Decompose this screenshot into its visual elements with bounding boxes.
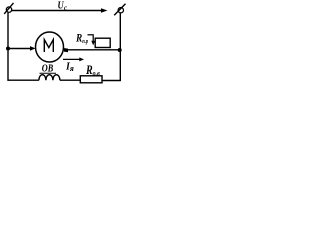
junction node (right)	[118, 48, 122, 52]
bottom wire (left section)	[8, 79, 39, 81]
junction node (left)	[6, 47, 10, 51]
brush (right of motor, filled pad)	[64, 48, 68, 52]
resistor R_о.в (box)	[80, 76, 102, 83]
label ОВ (field winding, underlined)	[40, 63, 57, 74]
svg-text:Iя: Iя	[65, 61, 74, 73]
field winding ОВ (coil, 3 humps)	[39, 75, 60, 81]
arrow (current into right terminal)	[101, 8, 108, 13]
left vertical wire	[7, 13, 9, 81]
rheostat R_п.р (box)	[95, 38, 110, 47]
wire: coil to resistor	[60, 79, 80, 81]
terminal X1 (top-left, circle with slash)	[4, 3, 13, 14]
wire: junction to motor brush	[8, 48, 31, 50]
top wire	[12, 10, 102, 12]
terminal X2 (top-right, circle with slash)	[114, 4, 125, 16]
rheostat wiper (tap with down arrow)	[88, 34, 96, 45]
arrow I_я (armature current direction)	[63, 57, 84, 61]
right vertical wire	[119, 13, 121, 81]
bottom wire (right section)	[102, 80, 121, 82]
wire: motor to right junction (under rheostat)	[68, 49, 120, 51]
svg-text:Uc: Uc	[58, 1, 67, 12]
brush (left of motor, filled arrow)	[30, 46, 36, 51]
motor armature M	[36, 32, 64, 62]
